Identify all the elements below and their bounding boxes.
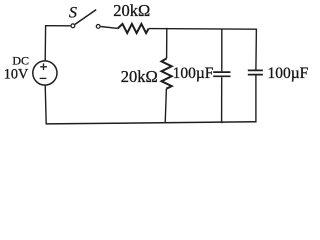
switch S blade — [75, 10, 96, 25]
wire right vertical upper — [255, 29, 258, 70]
resistor R1 20k horizontal zigzag — [118, 24, 149, 33]
wire left vertical lower — [45, 85, 46, 124]
wire top-left segment — [46, 25, 71, 27]
wire resistor R2 branch top — [166, 28, 168, 59]
wire top-right segment — [149, 28, 257, 31]
wire capacitor C1 branch bottom — [221, 77, 223, 123]
wire right vertical lower — [255, 75, 257, 122]
switch S left terminal — [71, 24, 75, 28]
svg-text:DC: DC — [12, 54, 29, 68]
voltage source plus sign — [40, 63, 47, 70]
svg-text:10V: 10V — [4, 67, 29, 83]
wire resistor R2 branch bottom — [165, 89, 166, 123]
resistor R2 20k vertical zigzag — [162, 58, 172, 88]
svg-text:100µF: 100µF — [173, 65, 214, 82]
wire switch to resistor R1 — [101, 27, 118, 29]
voltage source V1 circle — [33, 61, 57, 85]
voltage source minus sign — [40, 77, 47, 79]
switch S right terminal — [96, 25, 100, 29]
wire capacitor C1 branch top — [221, 29, 223, 71]
svg-text:20kΩ: 20kΩ — [113, 1, 150, 20]
svg-text:20kΩ: 20kΩ — [121, 67, 158, 86]
capacitor C1 plates — [213, 72, 230, 76]
svg-text:S: S — [69, 4, 77, 22]
capacitor C2 plates — [248, 70, 263, 74]
wire bottom — [46, 122, 257, 124]
wire left vertical upper — [44, 25, 46, 61]
svg-text:100µF: 100µF — [267, 65, 308, 82]
